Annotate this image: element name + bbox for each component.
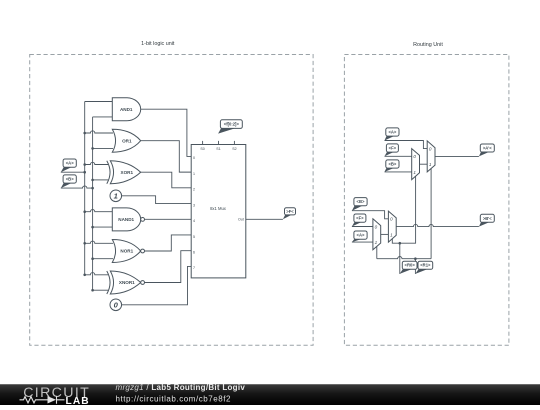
junction on net A at XNOR1 input xyxy=(83,274,86,277)
wire: mux U4 out to mux U5 input 1 xyxy=(381,233,389,235)
wire: A input tap to NOR1 xyxy=(85,241,113,243)
flag <A> (routing top) xyxy=(385,128,400,141)
flag <B> (net B input flag) xyxy=(61,175,76,188)
wire: flag A to bus xyxy=(61,171,85,173)
junction net A at flag xyxy=(83,171,86,174)
svg-text:<R1>: <R1> xyxy=(420,263,431,268)
junction on net B at NAND1 input xyxy=(91,226,94,229)
flag <B> (routing bottom) xyxy=(352,198,367,211)
svg-text:1: 1 xyxy=(429,162,432,167)
wire: flag F to mux U4 input 0 xyxy=(352,226,373,228)
mux U1 select stub S1 xyxy=(218,141,220,145)
constant 1 source xyxy=(110,190,122,202)
wire: net R1 down to flag R1 xyxy=(414,259,416,274)
title: Routing Unit xyxy=(413,42,443,48)
svg-text:<A>: <A> xyxy=(388,129,396,134)
mux U1 select label S0 xyxy=(200,147,204,151)
wire: OR1 out to mux pin 1 xyxy=(141,141,192,172)
svg-text:1: 1 xyxy=(375,240,378,245)
junction net R1 xyxy=(414,257,417,260)
footer caption xyxy=(116,383,246,404)
mux U1 pin label 0 xyxy=(193,156,195,160)
flag <F> (routing top) xyxy=(385,144,399,156)
gate XNOR1 xyxy=(107,271,145,294)
mux U1 body (8x1 Mux) xyxy=(191,145,246,278)
svg-text:S0: S0 xyxy=(200,147,204,151)
gate AND1 xyxy=(112,98,140,121)
svg-text:4: 4 xyxy=(193,219,195,223)
wire: const 1 to mux pin 3 xyxy=(122,196,192,204)
wire: NAND1 out to mux pin 4 xyxy=(145,218,192,220)
flag <B> (routing top) xyxy=(385,160,400,172)
mux U1 pin label 3 xyxy=(193,203,195,207)
wire: net R1 from mux U4 select xyxy=(376,246,378,258)
flag <R0> (select input) xyxy=(400,261,417,274)
wire: A input tap to OR1 xyxy=(85,131,113,133)
svg-text:1: 1 xyxy=(413,170,416,175)
wire: mux U3 out to flag A' xyxy=(435,155,479,157)
flag <F> (routing bottom) xyxy=(352,214,366,227)
flag <R1> (select input) xyxy=(415,261,432,274)
svg-text:<B>: <B> xyxy=(66,176,74,181)
svg-text:XNOR1: XNOR1 xyxy=(119,280,135,285)
wire: mux U5 out to flag B' (hops over select nets) xyxy=(396,224,479,226)
wire: flag B to bus (hops over A bus) xyxy=(61,186,93,188)
title: 1-bit logic unit xyxy=(141,41,175,47)
junction on net A at NAND1 input xyxy=(83,210,86,213)
wire: net A vertical bus xyxy=(84,102,86,275)
svg-text:mrgzg1 / Lab5 Routing/Bit Logi: mrgzg1 / Lab5 Routing/Bit Logiv xyxy=(116,383,246,392)
wire: AND1 out to mux pin 0 xyxy=(141,109,192,156)
svg-text:8x1 Mux: 8x1 Mux xyxy=(210,206,227,211)
mux U2 (routing, top-left 2:1) xyxy=(412,149,420,180)
svg-text:XOR1: XOR1 xyxy=(121,170,134,175)
wire: mux out to flag F xyxy=(246,218,283,220)
svg-text:0: 0 xyxy=(193,156,195,160)
mux U1 select stub S0 xyxy=(202,141,204,145)
svg-text:<R0>: <R0> xyxy=(405,263,416,268)
junction on net A at NOR1 input xyxy=(83,242,86,245)
wire: B input tap to NAND1 xyxy=(93,226,113,228)
gate XOR1 xyxy=(107,161,141,184)
junction on net B at NOR1 input xyxy=(91,257,94,260)
wire: A input tap to XOR1 xyxy=(85,162,108,164)
CircuitLab logo xyxy=(20,385,91,407)
flag >A'< (routing output) xyxy=(479,144,494,156)
wire: net R1 across to mux U3 select (hops over R0 drop) xyxy=(377,257,431,259)
junction on net B at XOR1 input xyxy=(91,179,94,182)
wire: net R0 from mux U5 select xyxy=(392,239,400,244)
wire: A input tap to NAND1 xyxy=(85,209,113,211)
svg-text:<f[0:2]>: <f[0:2]> xyxy=(224,122,240,127)
svg-text:1-bit logic unit: 1-bit logic unit xyxy=(141,41,175,47)
flag >B'< (routing output) xyxy=(479,214,494,226)
svg-text:S2: S2 xyxy=(232,147,236,151)
wire: B input tap to NOR1 xyxy=(93,258,113,260)
junction on net B at XNOR1 input xyxy=(91,289,94,292)
mux U1 select label S2 xyxy=(232,147,236,151)
junction on net B at OR1 input xyxy=(91,147,94,150)
wire: mux U2 out to mux U3 input 1 xyxy=(420,163,428,165)
svg-text:1: 1 xyxy=(114,192,118,201)
wire: B input tap to XNOR1 xyxy=(93,289,108,291)
junction on net A at XOR1 input xyxy=(83,163,86,166)
gate NAND1 xyxy=(112,208,144,231)
flag >F< (output flag) xyxy=(283,208,296,220)
wire: net R0 across to mux U2 select xyxy=(400,176,416,243)
wire: flag F to mux U2 input 0 xyxy=(385,155,412,157)
svg-text:3: 3 xyxy=(193,203,195,207)
junction net B at flag xyxy=(91,187,94,190)
svg-text:S1: S1 xyxy=(216,147,220,151)
wire: net R1 up to mux U3 select xyxy=(430,169,432,259)
flag <A> (routing bottom) xyxy=(352,231,367,242)
gate NOR1 xyxy=(112,240,144,263)
svg-text:0: 0 xyxy=(375,224,378,229)
mux U4 (routing, bottom-left 2:1) xyxy=(373,219,381,250)
svg-text:NAND1: NAND1 xyxy=(118,217,134,222)
wire: B input tap to OR1 xyxy=(93,147,113,149)
svg-text:<F>: <F> xyxy=(356,216,364,221)
junction net R0 xyxy=(399,242,402,245)
svg-text:NOR1: NOR1 xyxy=(120,249,133,254)
wire: net R0 down to flag R0 (crosses R1 run) xyxy=(399,243,401,274)
svg-text:2: 2 xyxy=(193,188,195,192)
mux U1 select stub S2 xyxy=(233,141,235,145)
mux U1 Out pin label xyxy=(238,218,244,222)
mux U1 pin label 5 xyxy=(193,235,195,239)
svg-text:Out: Out xyxy=(238,218,244,222)
svg-text:<B>: <B> xyxy=(357,199,365,204)
wire: B input tap to AND1 xyxy=(93,116,113,118)
wire: net B vertical bus xyxy=(92,117,94,290)
flag <A> (net A input flag) xyxy=(61,159,76,172)
wire: A input tap to XNOR1 xyxy=(85,273,108,275)
mux U1 pin label 2 xyxy=(193,188,195,192)
svg-text:OR1: OR1 xyxy=(122,138,132,143)
wire: flag B to mux U2 input 1 xyxy=(385,171,412,173)
mux U5 (routing, bottom-right 2:1) xyxy=(388,211,396,242)
svg-text:>F<: >F< xyxy=(286,209,294,214)
svg-text:<A>: <A> xyxy=(357,233,365,238)
svg-text:<B>: <B> xyxy=(388,161,396,166)
svg-text:1: 1 xyxy=(390,232,393,237)
wire: flag B to mux U5 input 0 xyxy=(352,211,389,219)
constant 0 source xyxy=(110,299,122,311)
mux U1 select label S1 xyxy=(216,147,220,151)
svg-text:7: 7 xyxy=(193,266,195,270)
svg-text:LAB: LAB xyxy=(66,396,90,405)
mux U1 pin label 1 xyxy=(193,172,195,176)
wire: NOR1 out to mux pin 5 xyxy=(145,235,192,251)
svg-text:6: 6 xyxy=(193,250,195,254)
svg-text:AND1: AND1 xyxy=(120,107,133,112)
wire: A input tap to AND1 xyxy=(85,101,113,103)
wire: flag A to mux U3 input 0 xyxy=(385,141,428,149)
svg-text:0: 0 xyxy=(390,217,393,222)
svg-text:>B'<: >B'< xyxy=(483,216,492,221)
svg-text:0: 0 xyxy=(413,154,416,159)
svg-text:<A>: <A> xyxy=(66,161,74,166)
svg-text:http://circuitlab.com/cb7e8f2: http://circuitlab.com/cb7e8f2 xyxy=(116,395,232,404)
svg-text:5: 5 xyxy=(193,235,195,239)
svg-text:Routing Unit: Routing Unit xyxy=(413,42,443,48)
mux U1 pin label 4 xyxy=(193,219,195,223)
svg-text:>A'<: >A'< xyxy=(483,145,492,150)
wire: const 0 to mux pin 7 xyxy=(122,266,192,304)
footer bar xyxy=(0,385,540,406)
right schematic frame (Routing Unit) xyxy=(344,55,509,346)
svg-text:0: 0 xyxy=(429,147,432,152)
left schematic frame (1-bit logic unit) xyxy=(30,55,313,346)
wire: B input tap to XOR1 xyxy=(93,179,108,181)
wire: XOR1 out to mux pin 2 xyxy=(140,172,191,188)
mux U3 (routing, top-right 2:1) xyxy=(427,141,435,172)
wire: XNOR1 out to mux pin 6 xyxy=(145,251,192,283)
svg-text:1: 1 xyxy=(193,172,195,176)
svg-text:<F>: <F> xyxy=(389,145,397,150)
gate OR1 xyxy=(112,129,140,152)
mux U1 pin label 7 xyxy=(193,266,195,270)
flag <f[0:2]> (select bus flag) xyxy=(218,120,242,134)
wire: flag A to mux U4 input 1 xyxy=(352,241,373,243)
junction on net A at OR1 input xyxy=(83,132,86,135)
mux U1 pin label 6 xyxy=(193,250,195,254)
